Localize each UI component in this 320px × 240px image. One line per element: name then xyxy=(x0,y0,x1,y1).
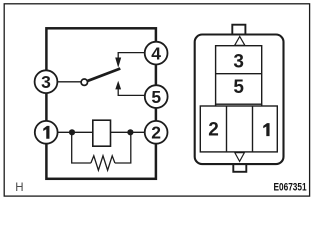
svg-text:2: 2 xyxy=(151,123,161,143)
svg-text:2: 2 xyxy=(208,120,219,141)
svg-text:E067351: E067351 xyxy=(274,182,308,194)
svg-text:5: 5 xyxy=(151,87,161,107)
svg-text:3: 3 xyxy=(41,72,51,92)
svg-text:H: H xyxy=(15,182,23,194)
svg-text:5: 5 xyxy=(233,77,244,98)
svg-text:3: 3 xyxy=(233,51,244,72)
svg-text:4: 4 xyxy=(151,44,161,64)
